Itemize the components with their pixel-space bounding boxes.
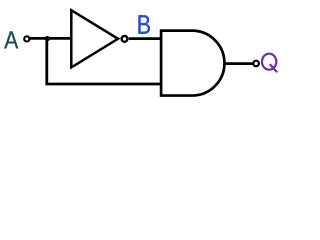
AND gate U2 [161, 31, 224, 96]
output terminal Q [253, 61, 259, 67]
node B label [139, 15, 150, 33]
wire A to inverter input [30, 37, 71, 40]
wire inverter to AND gate upper input [129, 37, 161, 40]
inverter bubble [122, 36, 128, 42]
input terminal A [24, 36, 29, 41]
wire AND output [224, 62, 253, 65]
node A label [4, 31, 18, 48]
junction dot [45, 36, 50, 41]
node Q label [262, 54, 277, 72]
inverter U1 triangle [71, 10, 118, 67]
wire branch down to AND gate lower input [47, 39, 161, 84]
